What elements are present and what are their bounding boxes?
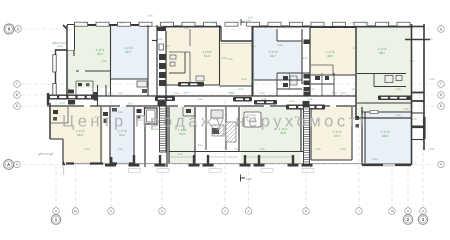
- shaft2 right wall x=310: [309, 28, 311, 96]
- right entrance porch stem+foot: [412, 126, 423, 129]
- bay top wall y=50: [55, 49, 67, 51]
- svg-text:35.2: 35.2: [97, 52, 103, 56]
- right apt wc: [396, 76, 402, 81]
- svg-text:40.9: 40.9: [327, 54, 333, 58]
- lower green1 bath: [183, 115, 195, 117]
- bottom wall under cream L1: [66, 162, 103, 164]
- wall x110.5 y84-96: [110, 79, 112, 96]
- right apt bath tub: [385, 76, 393, 83]
- svg-text:3.56: 3.56: [83, 22, 89, 25]
- svg-text:3.56: 3.56: [119, 22, 125, 25]
- svg-text:3.56: 3.56: [84, 148, 90, 151]
- right core left wall x=411.5: [411, 24, 413, 165]
- core thick bar y=92.5: [412, 92, 425, 94]
- fill lower green 1: [169, 107, 195, 163]
- svg-text:3.56: 3.56: [363, 22, 369, 25]
- window line x141-163: [142, 26, 164, 28]
- bottom circle 4: [222, 208, 229, 215]
- bath cluster left x=277: [276, 73, 278, 96]
- balcony rails thin y=157: [169, 156, 193, 158]
- green A bath top: [76, 80, 93, 82]
- axis line Г y=84: [21, 83, 437, 85]
- bath cluster partition x=289.5: [289, 73, 291, 89]
- svg-text:3.56: 3.56: [259, 148, 265, 151]
- svg-text:3.56: 3.56: [289, 100, 295, 103]
- bottom circle 5: [245, 208, 252, 215]
- cream room inner partition y=65: [311, 64, 333, 66]
- shaft1 black box 1: [159, 54, 166, 60]
- fill lower cream right: [311, 107, 352, 160]
- niche wall x=74.5: [74, 25, 76, 50]
- svg-text:3.56: 3.56: [309, 88, 315, 91]
- axis line В y=95: [21, 94, 437, 96]
- green A bath fixture 1: [78, 83, 82, 86]
- svg-text:3.56: 3.56: [164, 45, 170, 48]
- vertical stair ladder lower core: [160, 100, 167, 152]
- svg-text:3.56: 3.56: [372, 158, 378, 161]
- right apt bath bottom y=86.5: [374, 86, 406, 88]
- svg-text:3.56: 3.56: [317, 25, 323, 28]
- blue D notch wall x=277: [276, 29, 278, 41]
- top wall y=26.5 x253-310: [254, 26, 311, 28]
- svg-text:35.2: 35.2: [379, 51, 385, 55]
- shaft1 black box 2: [159, 63, 166, 69]
- svg-text:3.56: 3.56: [241, 78, 247, 81]
- svg-text:3.56: 3.56: [117, 92, 123, 95]
- stair flight below cream apt: [178, 82, 204, 87]
- svg-text:3.56: 3.56: [101, 60, 107, 63]
- cream apt bottom y=85: [166, 84, 220, 86]
- svg-text:3.56: 3.56: [157, 38, 163, 41]
- lower wall x=239: [238, 107, 240, 151]
- svg-text:3.56: 3.56: [183, 27, 189, 30]
- svg-text:3.56: 3.56: [227, 58, 233, 61]
- bottom circle 1а: [72, 208, 79, 215]
- axis line Д y=29: [23, 28, 434, 30]
- fill blue room top 2nd: [111, 25, 148, 79]
- inner bottom wall y=151.5: [169, 151, 310, 153]
- lower wall x=226: [225, 107, 227, 150]
- dark box atop mid ladder: [303, 101, 310, 107]
- white notch over blue D right: [277, 29, 302, 41]
- fill lower cream left: [50, 107, 103, 163]
- cream room bottom y=75: [311, 74, 356, 76]
- svg-text:34.7: 34.7: [125, 50, 131, 54]
- bath tub entrance room: [211, 110, 223, 118]
- hatched block entrance column: [226, 122, 236, 142]
- svg-text:Г: Г: [440, 82, 442, 86]
- bottom wall under blue L2: [110, 162, 134, 164]
- svg-text:В: В: [16, 93, 18, 97]
- fill lower blue right: [365, 112, 411, 165]
- circle Д top-left: [15, 26, 22, 33]
- svg-text:3.56: 3.56: [351, 88, 357, 91]
- svg-text:3.56: 3.56: [427, 38, 433, 41]
- elevator lower core: [145, 108, 158, 124]
- circle Г right: [438, 81, 445, 88]
- bottom circle 6: [303, 208, 310, 215]
- vertical axis 6 x=306: [305, 100, 307, 207]
- svg-text:3.56: 3.56: [127, 103, 133, 106]
- lower-left notch y=139: [50, 138, 63, 140]
- circle В right: [438, 92, 445, 99]
- white notch bottom-left: [50, 139, 63, 164]
- svg-text:3.56: 3.56: [352, 47, 358, 50]
- svg-text:3.56: 3.56: [234, 148, 240, 151]
- svg-text:3.56: 3.56: [259, 92, 265, 95]
- svg-text:32.8: 32.8: [179, 132, 185, 136]
- top wall y=27 x310-356: [310, 26, 356, 28]
- svg-text:3.56: 3.56: [261, 98, 267, 101]
- lower wall x=167: [166, 107, 168, 167]
- cream apt partition x=190 upper: [189, 29, 191, 46]
- bottom circle 9: [420, 208, 427, 215]
- bedroom top wall y=41: [221, 40, 252, 42]
- bath tub below blue B: [137, 81, 147, 87]
- vertical axis 8 x=408: [407, 100, 409, 207]
- tub in D bath: [290, 76, 297, 85]
- fixture below cream pair b: [325, 76, 329, 80]
- level marker top center: [241, 19, 246, 26]
- svg-text:3.56: 3.56: [395, 88, 401, 91]
- svg-text:37.8: 37.8: [334, 134, 340, 138]
- entrance arrow bottom-left: [62, 161, 66, 166]
- svg-text:3.56: 3.56: [65, 88, 71, 91]
- bath fixture cream apt 2: [170, 62, 175, 66]
- flight mid-left corridor: [155, 97, 175, 102]
- bottom wall under blue right: [362, 164, 411, 166]
- fixture lower cream bath: [53, 110, 58, 114]
- svg-text:3.56: 3.56: [197, 98, 203, 101]
- svg-text:3.56: 3.56: [302, 57, 308, 60]
- fill large green right apartment: [357, 28, 411, 119]
- top outer wall high section y=25: [67, 24, 142, 26]
- circle Б left: [14, 103, 21, 110]
- corridor top wall y=96: [47, 95, 356, 97]
- svg-text:3.56: 3.56: [177, 153, 183, 156]
- circle Д top-right: [438, 26, 445, 33]
- dark box lower core: [158, 101, 167, 107]
- thick shaft top wall: [157, 27, 166, 31]
- bath fixture a: [283, 76, 288, 80]
- shaft1 black box 3: [159, 72, 166, 78]
- stub wall in blue B: [152, 40, 157, 42]
- shaft2 extra box top: [304, 40, 310, 45]
- fill cream bedroom 220-251: [220, 41, 252, 86]
- partition x=111: [110, 25, 112, 84]
- blue D notch wall y=41: [277, 40, 302, 42]
- lower wall x=50: [49, 103, 51, 139]
- lower wall x=134: [133, 107, 135, 164]
- svg-text:3.56: 3.56: [211, 22, 217, 25]
- right cap of left stair bar: [94, 92, 98, 101]
- shaft corner stub 163-166: [163, 24, 166, 28]
- right apt bottom y=118: [357, 117, 411, 119]
- svg-text:3.56: 3.56: [238, 88, 244, 91]
- flight below bedroom: [233, 97, 252, 102]
- circle А bottom-left small: [14, 161, 20, 167]
- svg-text:3.56: 3.56: [429, 148, 435, 151]
- svg-text:3.56: 3.56: [315, 148, 321, 151]
- svg-text:3.56: 3.56: [307, 98, 313, 101]
- vertical axis 2 x=111: [110, 100, 112, 207]
- circle А bottom-right: [438, 161, 444, 167]
- bottom circle 3: [159, 208, 166, 215]
- cream apt partition y=52: [169, 51, 190, 53]
- thick divider wall x=252.5: [252, 27, 254, 97]
- cream apt partition x=190 lower: [189, 52, 191, 85]
- svg-text:3.56: 3.56: [365, 102, 371, 105]
- core thick bar y=101: [412, 100, 425, 102]
- corridor bottom wall y=106: [47, 105, 356, 107]
- lower wall x=169: [168, 107, 170, 163]
- svg-text:0.150: 0.150: [246, 178, 252, 181]
- vertical axis 7а x=392: [391, 100, 393, 207]
- bath cluster bottom y=89: [277, 88, 302, 90]
- right apt left wall x=356: [355, 26, 357, 118]
- bath partition y=73: [169, 72, 185, 74]
- fixture block entrance: [212, 128, 219, 134]
- top wall y=26.5 right apt: [356, 26, 412, 28]
- dark block below left bar: [68, 100, 75, 105]
- svg-text:А: А: [7, 162, 10, 167]
- cream room inner wall x=333: [332, 65, 334, 75]
- landing line in cream apt hall: [221, 43, 251, 45]
- svg-text:В: В: [440, 93, 442, 97]
- svg-text:3.56: 3.56: [57, 45, 63, 48]
- svg-text:3.56: 3.56: [183, 92, 189, 95]
- vertical axis 1а x=75.5: [75, 100, 77, 207]
- dimension line top-left corner: [52, 42, 70, 44]
- svg-text:3.56: 3.56: [331, 92, 337, 95]
- vertical axis 7 x=359: [358, 100, 360, 207]
- bold section circle 2: [403, 215, 413, 225]
- lower cream bottom y=160: [311, 159, 352, 161]
- lower wall x=145: [144, 107, 146, 167]
- lower wall x=101: [100, 107, 102, 163]
- fill green room top-left: [67, 25, 110, 88]
- blue room bottom y=79: [111, 78, 148, 80]
- fill blue room D: [254, 29, 303, 80]
- fixture lower cream bath 2: [53, 117, 57, 121]
- svg-text:Б: Б: [16, 104, 18, 108]
- window boxes row along top wall: [75, 22, 88, 26]
- dark block above left bar: [68, 90, 74, 94]
- svg-text:7а: 7а: [390, 209, 394, 213]
- svg-text:5.75: 5.75: [246, 20, 251, 23]
- lower wall x=352: [351, 107, 353, 160]
- bold circle А bottom-left: [4, 160, 14, 170]
- fill lower green 2: [241, 107, 301, 163]
- circle В left: [14, 92, 21, 99]
- svg-text:3.56: 3.56: [340, 148, 346, 151]
- lower wall x=301: [300, 107, 302, 151]
- svg-text:Г: Г: [16, 82, 18, 86]
- fixture cream apt hall: [196, 76, 204, 81]
- vertical axis 5 x=248.5: [248, 100, 250, 207]
- small bath in lower cream room: [50, 122, 68, 124]
- svg-text:3.56: 3.56: [277, 44, 283, 47]
- vertical axis 4 x=225: [224, 100, 226, 207]
- bottom thin porch line: [66, 163, 411, 165]
- green A bath right: [92, 81, 94, 95]
- blue D right wall x=302: [301, 29, 303, 84]
- green A bath fixture 2: [86, 83, 89, 86]
- bottom circle 1: [53, 208, 60, 215]
- green A partition y=71: [76, 70, 110, 72]
- shaft2 black box 4: [304, 92, 310, 97]
- svg-text:Б: Б: [440, 104, 442, 108]
- svg-text:3.56: 3.56: [340, 92, 346, 95]
- axis line Б y=106: [21, 105, 437, 107]
- svg-text:32.2: 32.2: [119, 133, 125, 137]
- shaft wall x=166: [165, 31, 167, 96]
- top wall y=26.5 x166-221: [166, 26, 221, 28]
- bath fixture cream apt 1: [170, 55, 176, 59]
- svg-text:3.56: 3.56: [247, 17, 253, 20]
- shaft wall x=157: [156, 25, 158, 96]
- svg-text:40.9: 40.9: [382, 134, 388, 138]
- left cap of stair bar: [47, 93, 49, 105]
- core rung y=113: [412, 112, 425, 114]
- green A bath left: [75, 81, 77, 95]
- lower wall x=365: [364, 112, 366, 165]
- svg-text:51.8: 51.8: [204, 54, 210, 58]
- svg-text:3.56: 3.56: [429, 78, 435, 81]
- right core right wall x=424: [423, 24, 425, 150]
- flight mid-right corridor: [286, 105, 325, 110]
- fill lower blue: [110, 107, 134, 164]
- svg-text:3.56: 3.56: [385, 22, 391, 25]
- svg-text:3.56: 3.56: [107, 92, 113, 95]
- svg-text:3.56: 3.56: [284, 25, 290, 28]
- wc below blue B: [142, 89, 147, 93]
- svg-text:3.56: 3.56: [173, 92, 179, 95]
- flight right gallery: [378, 96, 411, 101]
- hall wall x=97.5: [97, 85, 99, 106]
- svg-text:35.5: 35.5: [280, 131, 286, 135]
- shaft1 black box 4: [159, 80, 166, 86]
- lower wall x=362: [361, 107, 363, 165]
- shaft2 black box 3: [304, 87, 310, 92]
- blue D bottom y=80: [254, 79, 302, 81]
- lower wall x=206: [205, 107, 207, 150]
- small rooms below cream pair 311-356: [311, 83, 334, 85]
- bottom circle 8: [405, 208, 412, 215]
- core wide crossbar y=39.5: [405, 39, 430, 41]
- bath cluster top y=73: [277, 72, 310, 74]
- balcony/porch T-stubs bottom: [133, 155, 135, 164]
- svg-text:3.56: 3.56: [403, 108, 409, 111]
- shaft2 black box 2: [304, 81, 310, 86]
- vertical axis 3 x=162: [161, 100, 163, 207]
- vertical axis 1 x=56: [55, 100, 57, 207]
- bottom circle 2: [108, 208, 115, 215]
- right apt bath left x=374: [373, 74, 375, 87]
- svg-text:3.56: 3.56: [409, 60, 415, 63]
- hall wall x=106: [105, 85, 107, 96]
- outer wall x=67: [66, 25, 68, 96]
- lower wall x=195: [194, 107, 196, 163]
- bold section circle 1: [51, 215, 61, 225]
- circle Г left: [14, 81, 21, 88]
- svg-text:1а: 1а: [74, 209, 78, 213]
- svg-text:3.56: 3.56: [221, 57, 227, 60]
- bottom circle 7: [356, 208, 363, 215]
- svg-text:3.56: 3.56: [395, 114, 401, 117]
- extra fixtures strip x103-110: [103, 112, 108, 116]
- svg-text:34.7: 34.7: [270, 54, 276, 58]
- right apt bath top + partition y=73.5: [357, 73, 406, 75]
- axis line А y=164.5: [23, 164, 434, 166]
- blue room right wall x=148: [147, 25, 149, 96]
- entry stair flight far-left: [47, 95, 94, 100]
- bath fixture b: [283, 83, 288, 87]
- svg-text:3.56: 3.56: [349, 22, 355, 25]
- lower wall x=110: [109, 107, 111, 164]
- lower blue top y=112: [362, 111, 411, 113]
- vertical axis 9 x=423: [422, 100, 424, 207]
- svg-text:3.56: 3.56: [250, 45, 256, 48]
- lower green2 bath box: [244, 112, 261, 127]
- level marker bottom center: [241, 175, 246, 182]
- white niche green A top-left: [68, 25, 75, 50]
- bold section circle 3: [418, 215, 428, 225]
- hatched block entrance room: [212, 125, 224, 136]
- fixture below cream pair a: [315, 76, 320, 80]
- flight mid corridor: [254, 100, 277, 105]
- svg-text:35.5: 35.5: [77, 133, 83, 137]
- bath wall x=185: [184, 52, 186, 73]
- core rung y=126.5: [412, 126, 425, 128]
- porch outline lines below bottom wall: [129, 169, 141, 173]
- right apt partition y=103: [357, 102, 411, 104]
- svg-text:Центр Продажу нерухомості: Центр Продажу нерухомості: [62, 113, 367, 131]
- svg-text:3.56: 3.56: [229, 92, 235, 95]
- circle Б right: [438, 103, 445, 110]
- bottom circle 7а: [389, 208, 396, 215]
- step wall x=221 down to y41: [220, 27, 222, 42]
- lower wall x=311: [310, 107, 312, 160]
- bold circle 6 top-left: [4, 24, 14, 34]
- svg-text:3.56: 3.56: [117, 148, 123, 151]
- svg-text:3.56: 3.56: [197, 144, 203, 147]
- vertical stair ladder mid shaft: [304, 107, 310, 164]
- svg-text:3.56: 3.56: [147, 15, 153, 18]
- fill cream room top right single: [310, 29, 355, 75]
- corridor door gaps on y=106 wall: [84, 105, 90, 107]
- lower wall x=63: [62, 139, 64, 164]
- cream apt inner wall x=219.5: [219, 27, 221, 86]
- core top cap y=26.5: [412, 26, 425, 28]
- fill cream 2-room apt top: [166, 29, 220, 85]
- core rung y=139.5: [412, 139, 425, 141]
- bedroom bottom y=86: [220, 85, 252, 87]
- svg-text:3.56: 3.56: [411, 118, 417, 121]
- shaft2 black box 1: [304, 74, 310, 79]
- svg-text:3.56: 3.56: [59, 102, 65, 105]
